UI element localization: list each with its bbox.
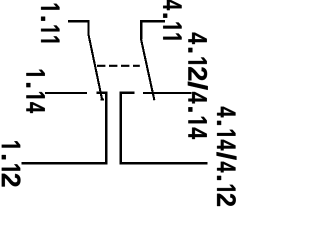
label terminal 1.14 [26, 70, 44, 113]
terminal stub and vertical to 1.12 [96, 93, 106, 164]
wire terminal 4.12/4.14 [143, 92, 191, 94]
label terminal 4.11 [163, 0, 181, 40]
mechanical link (dashed) [97, 65, 140, 67]
label terminal 1.12 [2, 141, 21, 186]
relay changeover contact schematic (rotated 90deg) [0, 0, 237, 217]
wire lead 1.11 with corner [68, 21, 88, 34]
bottom wire to 1.12 [22, 162, 108, 164]
label terminal 1.11 [41, 4, 59, 43]
wire terminal 1.14 [45, 92, 87, 94]
wire lead 4.11 with corner [141, 21, 165, 39]
open stub, vertical and bottom wire to 4.14/4.12 [121, 93, 208, 164]
label terminal 4.12/4.14 [188, 33, 208, 139]
contact blade K4 (movable) [141, 40, 154, 101]
contact blade K1 (movable) [88, 34, 102, 100]
label terminal 4.14/4.12 [217, 107, 237, 206]
blade K1 tip foot [101, 99, 105, 101]
